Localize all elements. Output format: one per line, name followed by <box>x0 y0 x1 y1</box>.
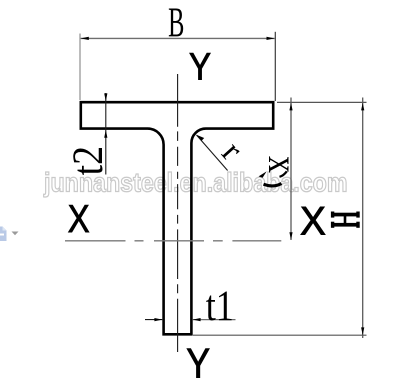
bottom extension line (web bottom extended right) <box>193 334 367 336</box>
top extension line (flange top extended right) <box>277 101 367 103</box>
r leader line <box>197 135 228 171</box>
label H (rotated, drawn) <box>331 212 360 228</box>
x dim arrow up <box>289 103 292 111</box>
svg-text:X: X <box>68 196 90 240</box>
svg-text:x: x <box>259 156 305 173</box>
t1 arrow left-pointing <box>193 318 201 321</box>
r leader arrowhead <box>196 135 204 141</box>
curved mark under x label <box>264 184 282 186</box>
x dim arrow down <box>289 232 292 240</box>
dropdown triangle artifact <box>12 232 19 236</box>
T-section outline <box>81 102 273 334</box>
B dimension extension line right <box>274 32 276 101</box>
B dimension line <box>81 37 275 39</box>
H dim arrow up <box>361 103 364 111</box>
svg-text:Y: Y <box>189 46 211 89</box>
svg-text:Y: Y <box>186 341 210 381</box>
H dim arrow down <box>361 327 364 335</box>
B dimension extension line left <box>79 34 81 101</box>
t2 arrow up (to flange bottom) <box>104 130 107 138</box>
t1 arrow right-pointing <box>154 318 162 321</box>
page icon artifact <box>0 227 7 242</box>
svg-text:X: X <box>300 199 326 244</box>
x dimension line <box>290 98 292 241</box>
t2 arrow down (to flange top) <box>104 93 107 101</box>
svg-text:B: B <box>168 0 184 46</box>
t1 dimension left segment <box>145 319 162 321</box>
svg-text:r: r <box>214 134 250 168</box>
H dimension line <box>362 98 364 339</box>
horizontal center line (X axis) <box>65 240 281 242</box>
svg-text:t2: t2 <box>64 146 112 175</box>
t2 dimension line <box>105 93 107 175</box>
t1 dimension right segment <box>193 319 236 321</box>
svg-text:t1: t1 <box>206 282 234 330</box>
B dim arrow right <box>267 37 275 40</box>
vertical center line (Y axis) <box>177 74 179 352</box>
B dim arrow left <box>81 37 89 40</box>
